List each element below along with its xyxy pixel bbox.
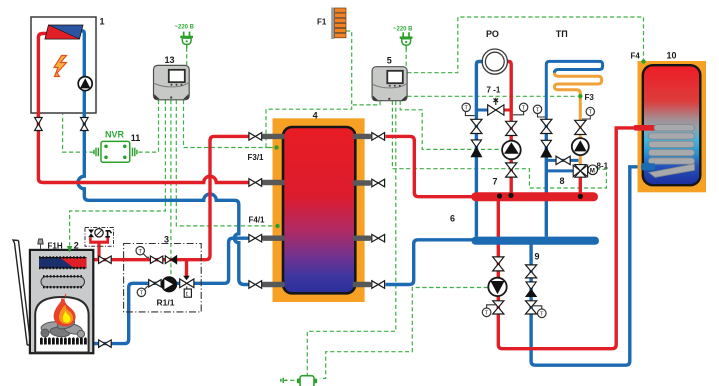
svg-text:t: t xyxy=(186,291,188,298)
svg-text:F3/1: F3/1 xyxy=(248,153,265,162)
svg-text:R1/1: R1/1 xyxy=(157,298,175,308)
svg-text:2: 2 xyxy=(74,241,79,251)
svg-text:6: 6 xyxy=(450,214,455,224)
svg-text:F1H: F1H xyxy=(48,242,63,251)
svg-text:10: 10 xyxy=(667,51,677,61)
svg-text:ТП: ТП xyxy=(556,29,568,39)
svg-text:9: 9 xyxy=(535,252,540,262)
svg-text:5: 5 xyxy=(387,56,392,66)
svg-text:F4/1: F4/1 xyxy=(249,216,266,225)
svg-text:1: 1 xyxy=(100,17,105,27)
svg-text:13: 13 xyxy=(165,55,175,65)
svg-text:8: 8 xyxy=(560,176,565,186)
svg-text:7: 7 xyxy=(493,177,498,187)
svg-text:F4: F4 xyxy=(631,52,641,61)
svg-text:M: M xyxy=(590,168,595,174)
svg-text:11: 11 xyxy=(131,133,141,143)
svg-text:NVR: NVR xyxy=(105,130,125,140)
svg-text:~220 В: ~220 В xyxy=(393,26,413,32)
svg-text:3: 3 xyxy=(164,235,169,245)
svg-text:РО: РО xyxy=(486,29,499,39)
svg-text:8-1: 8-1 xyxy=(597,162,609,171)
svg-text:7 -1: 7 -1 xyxy=(487,86,501,95)
svg-text:F1: F1 xyxy=(317,18,327,27)
svg-text:4: 4 xyxy=(313,111,318,121)
svg-text:~220 В: ~220 В xyxy=(175,25,195,31)
svg-text:F3: F3 xyxy=(585,93,595,102)
